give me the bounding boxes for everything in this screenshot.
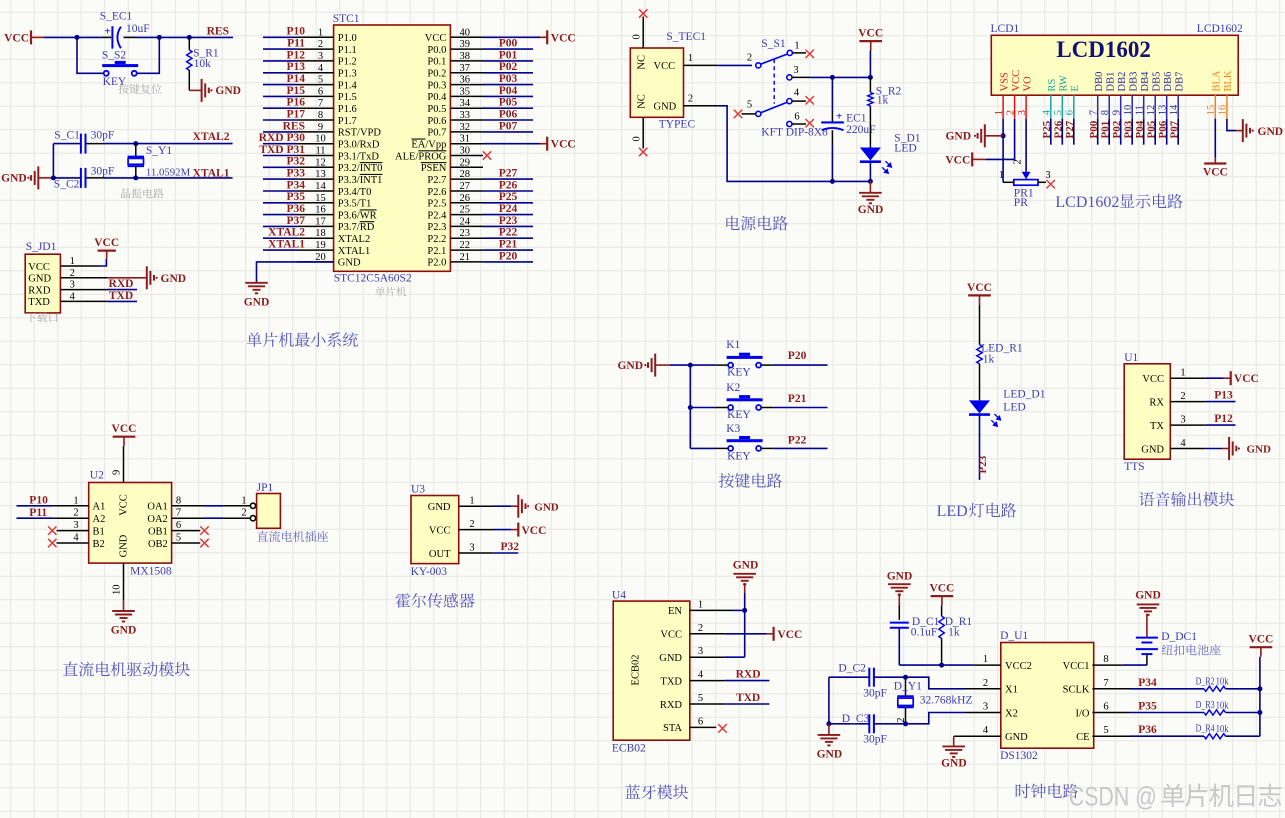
svg-text:VCC: VCC [112, 423, 137, 435]
svg-text:GND: GND [817, 749, 843, 761]
svg-text:25: 25 [460, 205, 471, 216]
power flag VCC (LCD backlight) [1203, 158, 1228, 179]
svg-text:VCC: VCC [929, 583, 954, 595]
power flag GND (D_C1) [887, 571, 913, 606]
svg-text:P36: P36 [1138, 724, 1157, 736]
svg-text:U2: U2 [90, 470, 104, 482]
connector S_TEC1 TYPEC body [630, 31, 706, 118]
svg-text:P27: P27 [499, 168, 518, 180]
pin 27 wire (right) [450, 181, 533, 192]
module title 时钟电路 [1016, 784, 1078, 799]
svg-text:D_R3: D_R3 [1196, 699, 1215, 711]
pin 14 wire (left) [263, 181, 334, 192]
svg-text:P02: P02 [1111, 120, 1123, 138]
svg-text:XTAL2: XTAL2 [193, 131, 230, 143]
svg-text:X2: X2 [1005, 708, 1018, 719]
crystal S_Y1 11.0592M [128, 144, 191, 179]
pin 25 wire (right) [450, 205, 533, 216]
svg-text:0: 0 [632, 136, 643, 141]
power flag VCC (pin 40) [540, 30, 576, 44]
pin 2 wire (left) [263, 39, 334, 50]
svg-text:9: 9 [112, 470, 123, 475]
PR1 pin3 no-connect [1038, 170, 1055, 188]
svg-text:GND: GND [858, 204, 884, 216]
svg-text:6: 6 [794, 111, 799, 122]
no-connect X pin 4 [792, 96, 814, 104]
svg-text:P00: P00 [1088, 120, 1100, 138]
svg-text:D_C3: D_C3 [842, 713, 870, 725]
module caption 按键复位 [118, 84, 161, 94]
svg-text:KEY: KEY [727, 367, 751, 379]
svg-text:DB3: DB3 [1128, 72, 1139, 92]
svg-text:TXD P31: TXD P31 [259, 144, 305, 156]
svg-text:ECB02: ECB02 [612, 743, 646, 755]
svg-text:4: 4 [73, 533, 79, 544]
svg-text:GND: GND [659, 653, 682, 664]
U2 pin2 wire P11 [17, 507, 89, 519]
svg-text:BLK: BLK [1223, 70, 1234, 91]
U4 pin4 TXD wire to RXD [690, 669, 770, 681]
svg-text:1: 1 [688, 53, 693, 64]
svg-text:33: 33 [460, 110, 471, 121]
PR1 pin1 wire to VSS net [999, 170, 1014, 182]
svg-text:STC1: STC1 [333, 13, 360, 25]
LCD net wires pins 4-14 [1051, 119, 1178, 145]
svg-text:P0.4: P0.4 [427, 92, 447, 103]
U3 pin2 wire to VCC [459, 523, 547, 537]
pin 34 wire (right) [450, 98, 533, 109]
svg-text:DB5: DB5 [1151, 72, 1162, 92]
svg-text:GND: GND [887, 571, 913, 583]
svg-text:17: 17 [315, 216, 326, 227]
svg-text:P36: P36 [286, 203, 305, 215]
svg-text:S_S1: S_S1 [761, 38, 786, 50]
pin 37 wire (right) [450, 63, 533, 74]
svg-text:STA: STA [663, 723, 682, 734]
svg-text:P34: P34 [286, 179, 305, 191]
svg-text:P21: P21 [499, 239, 518, 251]
ground GND (crystal caps) [817, 724, 843, 761]
svg-text:P2.7: P2.7 [427, 175, 446, 186]
svg-text:P3.7/RD: P3.7/RD [338, 222, 375, 233]
power flag VCC (reset circuit) [4, 30, 44, 44]
svg-text:3: 3 [73, 520, 78, 531]
svg-text:1k: 1k [877, 94, 889, 106]
module title 单片机最小系统 [247, 332, 358, 347]
svg-text:LED: LED [937, 503, 968, 520]
svg-text:S_JD1: S_JD1 [26, 241, 57, 253]
svg-text:RST/VPD: RST/VPD [338, 128, 382, 139]
svg-text:E: E [1070, 85, 1081, 91]
svg-text:2: 2 [318, 39, 323, 50]
svg-text:VCC2: VCC2 [1005, 661, 1032, 672]
svg-text:P11: P11 [287, 38, 305, 50]
power flag GND (battery) [1135, 590, 1161, 638]
key switch K3 [690, 423, 762, 462]
svg-text:I/O: I/O [1076, 708, 1090, 719]
pin 13 wire (left) [263, 169, 334, 180]
svg-text:EN: EN [668, 606, 682, 617]
svg-text:4: 4 [983, 725, 989, 736]
IC U2 MX1508 body [89, 470, 172, 578]
wire pin16 BLK to GND [1227, 119, 1236, 131]
pin 18 wire (left) [263, 228, 334, 239]
key switch K1 [690, 339, 762, 379]
svg-text:P06: P06 [1157, 120, 1169, 138]
svg-text:30pF: 30pF [91, 130, 115, 142]
svg-text:+: + [836, 111, 842, 123]
svg-text:3: 3 [983, 702, 988, 713]
svg-text:P2.1: P2.1 [427, 246, 446, 257]
svg-text:PR: PR [1014, 197, 1028, 209]
pin 23 wire (right) [450, 228, 533, 239]
svg-text:P0.6: P0.6 [427, 116, 446, 127]
svg-text:P07: P07 [1168, 120, 1180, 138]
svg-text:P17: P17 [286, 108, 305, 120]
connector TYPEC pin names [637, 55, 677, 113]
node junction VCC2 [939, 663, 944, 668]
svg-text:RX: RX [1149, 397, 1164, 408]
power flag VCC (clock pullups) [1248, 634, 1273, 737]
svg-text:P0.5: P0.5 [427, 104, 446, 115]
svg-text:1: 1 [794, 41, 799, 52]
U2 pin8 wire to JP1 pin1 [172, 495, 251, 506]
svg-text:U3: U3 [411, 484, 425, 496]
svg-text:+: + [104, 26, 110, 38]
svg-text:TTS: TTS [1124, 461, 1144, 473]
svg-text:TXD: TXD [660, 676, 682, 687]
node junction VSS/GND [1001, 133, 1006, 138]
svg-text:B1: B1 [93, 526, 105, 537]
svg-text:ALE/PROG: ALE/PROG [395, 151, 447, 162]
svg-text:D_R4: D_R4 [1196, 723, 1215, 735]
svg-text:8: 8 [318, 110, 323, 121]
U3 pin1 wire to GND [459, 495, 559, 518]
svg-text:28: 28 [460, 169, 471, 180]
wire XTAL1 net [53, 177, 78, 179]
node junction D_R2 [1257, 686, 1262, 691]
svg-text:6: 6 [698, 716, 703, 727]
svg-text:P10: P10 [29, 495, 48, 507]
U4 pin2 VCC wire [690, 627, 803, 641]
svg-text:K3: K3 [726, 423, 740, 435]
svg-text:30pF: 30pF [863, 688, 887, 700]
svg-text:40: 40 [460, 27, 471, 38]
svg-text:P01: P01 [1099, 121, 1111, 139]
svg-text:P37: P37 [286, 215, 305, 227]
svg-text:VCC: VCC [967, 282, 992, 294]
svg-text:5: 5 [747, 100, 752, 111]
connector S_JD1 header [25, 241, 75, 313]
svg-text:P0.0: P0.0 [427, 45, 446, 56]
svg-text:1: 1 [698, 599, 703, 610]
power flag GND (keys) [617, 354, 669, 377]
svg-text:KEY: KEY [103, 76, 127, 88]
svg-text:12: 12 [315, 157, 326, 168]
svg-text:15: 15 [315, 193, 326, 204]
svg-text:10uF: 10uF [126, 23, 150, 35]
svg-text:0.1uF: 0.1uF [911, 627, 938, 639]
IC LCD1 LCD1602 body [991, 23, 1244, 95]
svg-text:23: 23 [460, 228, 471, 239]
svg-text:GND: GND [733, 560, 759, 572]
svg-text:P2.5: P2.5 [427, 199, 446, 210]
svg-text:GND: GND [1247, 443, 1272, 455]
svg-text:10: 10 [315, 134, 326, 145]
pin 36 wire (right) [450, 75, 533, 86]
svg-text:P14: P14 [286, 73, 305, 85]
svg-text:P1.3: P1.3 [338, 69, 357, 80]
svg-text:4: 4 [318, 63, 324, 74]
svg-text:U4: U4 [612, 590, 626, 602]
wire pin3 VO down to potentiometer wiper [1025, 119, 1027, 172]
svg-text:13: 13 [315, 169, 326, 180]
module title 按键电路 [719, 473, 782, 488]
pin 40 wire (right) [450, 27, 540, 38]
svg-text:21: 21 [460, 252, 471, 263]
U2 pin1 wire P10 [17, 495, 89, 507]
power flag VCC (motor) [112, 423, 137, 482]
svg-text:2: 2 [1180, 391, 1185, 402]
pin 1 wire (left) [263, 27, 334, 38]
wire XTAL2 net [53, 143, 78, 145]
svg-text:P32: P32 [501, 541, 520, 553]
svg-text:D_R2: D_R2 [1196, 675, 1215, 687]
label 直流电机插座 [257, 531, 328, 542]
pin 16 wire (left) [263, 205, 334, 216]
svg-text:OA1: OA1 [147, 502, 167, 513]
node junction K1 [688, 363, 693, 368]
pin 22 wire (right) [450, 240, 533, 251]
svg-text:10k: 10k [194, 58, 212, 70]
svg-text:2: 2 [698, 623, 703, 634]
capacitor S_C1 30pF [54, 130, 114, 154]
IC U4 ECB02 body [612, 590, 704, 755]
wire cap right stub [124, 36, 137, 38]
ground GND (power circuit) [858, 181, 884, 216]
svg-text:7: 7 [176, 508, 181, 519]
node junction D_R3 [1257, 710, 1262, 715]
svg-text:30: 30 [460, 146, 471, 157]
svg-text:4: 4 [698, 670, 704, 681]
U2 pin6 no-connect [172, 520, 209, 535]
svg-text:P2.0: P2.0 [427, 258, 446, 269]
svg-text:P25: P25 [1041, 120, 1053, 138]
svg-text:RXD: RXD [109, 278, 134, 290]
no-connect X pin 6 [792, 119, 814, 127]
svg-text:P2.4: P2.4 [427, 210, 447, 221]
svg-text:P03: P03 [499, 73, 518, 85]
svg-text:VCC: VCC [1142, 374, 1164, 385]
label 纽扣电池座 [1162, 644, 1221, 655]
svg-text:GND: GND [945, 131, 971, 143]
svg-text:RW: RW [1059, 75, 1070, 91]
U4 pin1 EN wire [690, 609, 745, 611]
svg-text:GND: GND [1135, 590, 1161, 602]
svg-text:GND: GND [244, 297, 270, 309]
svg-text:3: 3 [1045, 170, 1050, 181]
svg-text:KFT DIP-8X8: KFT DIP-8X8 [761, 127, 828, 139]
svg-text:PSEN: PSEN [421, 163, 447, 174]
svg-text:P3.5/T1: P3.5/T1 [338, 199, 372, 210]
svg-text:1: 1 [241, 495, 246, 506]
svg-text:TXD: TXD [109, 290, 133, 302]
wire K3 to P22 [761, 447, 827, 449]
svg-text:P27: P27 [1064, 120, 1076, 138]
svg-text:P34: P34 [1138, 677, 1157, 689]
IC U3 KY-003 body [411, 484, 475, 579]
svg-text:GND: GND [941, 758, 967, 770]
svg-text:GND: GND [28, 274, 51, 285]
svg-text:P16: P16 [286, 97, 305, 109]
U1 pin4 wire to GND [1170, 437, 1271, 460]
svg-text:16: 16 [315, 205, 326, 216]
pin 0 top no-connect [632, 9, 648, 48]
power flag VCC (LED circuit) [967, 282, 992, 305]
U4 pin5 RXD wire to TXD [690, 692, 770, 704]
svg-text:P24: P24 [499, 203, 518, 215]
svg-text:S_C2: S_C2 [54, 179, 80, 191]
module title 电源电路 [726, 216, 788, 231]
svg-text:RXD P30: RXD P30 [259, 132, 306, 144]
svg-text:P07: P07 [499, 120, 518, 132]
pin 1 wire to VCC [60, 259, 106, 266]
node junction X1/crystal top [903, 675, 908, 680]
svg-text:RXD: RXD [28, 285, 51, 296]
svg-text:DB6: DB6 [1163, 72, 1174, 92]
svg-text:P20: P20 [788, 350, 807, 362]
svg-text:TX: TX [1150, 421, 1164, 432]
svg-text:RES: RES [283, 120, 305, 132]
svg-text:LCD1602: LCD1602 [1197, 23, 1243, 35]
svg-text:SCLK: SCLK [1063, 685, 1090, 696]
svg-text:TXD: TXD [736, 692, 760, 704]
IC U-STC1 STC12C5A60S2 body [333, 13, 451, 285]
svg-text:1k: 1k [948, 627, 960, 639]
D_U1 pin1 wire [942, 664, 1001, 666]
svg-text:5: 5 [176, 533, 181, 544]
svg-text:P20: P20 [499, 250, 518, 262]
svg-text:1: 1 [1180, 368, 1185, 379]
pin 2 GND wire to rail [684, 94, 871, 182]
svg-text:VO: VO [1022, 76, 1033, 92]
svg-text:S_EC1: S_EC1 [100, 11, 133, 23]
svg-text:P10: P10 [286, 26, 305, 38]
svg-text:P00: P00 [499, 38, 518, 50]
svg-text:XTAL1: XTAL1 [268, 239, 305, 251]
node junction X2/crystal bottom [903, 721, 908, 726]
pin 5 wire (left) [263, 75, 334, 86]
svg-text:P21: P21 [788, 393, 807, 405]
svg-text:P3.2/INT0: P3.2/INT0 [338, 163, 383, 174]
svg-text:NC: NC [637, 94, 648, 109]
svg-text:KY-003: KY-003 [411, 566, 448, 578]
svg-text:LED_D1: LED_D1 [1003, 389, 1045, 401]
svg-text:DB4: DB4 [1140, 71, 1151, 92]
switch S_S1 DIP [747, 38, 800, 127]
capacitor D_C1 0.1uF [890, 606, 940, 666]
svg-text:P1.7: P1.7 [338, 116, 357, 127]
pin 28 wire (right) [450, 169, 533, 180]
resistor D_R2 10k [1130, 675, 1260, 691]
svg-text:KEY: KEY [727, 409, 751, 421]
wire LED to P23 [979, 415, 981, 480]
LCD pin stubs [1003, 95, 1227, 119]
svg-text:7: 7 [1103, 678, 1108, 689]
svg-text:P15: P15 [286, 85, 305, 97]
pin 39 wire (right) [450, 39, 533, 50]
IC D_U1 DS1302 body [983, 630, 1109, 762]
svg-text:JP1: JP1 [257, 482, 274, 494]
resistor D_R4 10k [1130, 723, 1260, 739]
svg-text:DS1302: DS1302 [1000, 750, 1038, 762]
svg-text:VCC: VCC [1234, 373, 1259, 385]
svg-text:GND: GND [428, 502, 451, 513]
svg-text:XTAL1: XTAL1 [193, 168, 230, 180]
svg-text:8: 8 [1103, 654, 1108, 665]
U4 pin3 GND wire [690, 656, 745, 658]
ground GND (reset) [189, 79, 241, 102]
svg-text:XTAL2: XTAL2 [338, 234, 370, 245]
svg-text:1: 1 [73, 495, 78, 506]
pin 21 wire (right) [450, 252, 533, 263]
resistor LED_R1 1k [977, 343, 1023, 366]
svg-text:P13: P13 [286, 61, 305, 73]
svg-text:P25: P25 [499, 191, 518, 203]
pin 3 wire to VCC rail [792, 76, 870, 78]
svg-text:ECB02: ECB02 [631, 655, 642, 686]
svg-text:VCC: VCC [119, 494, 130, 516]
wire right of key up to RES net [137, 37, 160, 73]
svg-text:24: 24 [460, 216, 471, 227]
svg-text:VCC: VCC [660, 630, 682, 641]
svg-text:P12: P12 [1214, 413, 1233, 425]
power flag VCC (download port) [94, 237, 119, 259]
svg-text:2: 2 [469, 519, 474, 530]
svg-text:VCC1: VCC1 [1063, 661, 1090, 672]
node junction EC1 bottom [830, 179, 835, 184]
wire left branch down to key [77, 37, 104, 73]
no-connect X pin 1 of S_S1 [792, 50, 814, 58]
svg-text:5: 5 [318, 75, 323, 86]
svg-text:14: 14 [315, 181, 326, 192]
svg-text:8: 8 [176, 495, 181, 506]
svg-text:7: 7 [318, 98, 323, 109]
svg-text:S_TEC1: S_TEC1 [666, 31, 706, 43]
svg-text:K1: K1 [726, 339, 740, 351]
D_U1 pin5 wire P36 [1092, 724, 1157, 736]
pin 24 wire (right) [450, 216, 533, 227]
IC U1 TTS body [1124, 352, 1186, 473]
svg-text:6: 6 [318, 86, 323, 97]
svg-text:TYPEC: TYPEC [659, 119, 696, 131]
power flag VCC (power circuit) [858, 28, 883, 78]
pin 0 bottom no-connect [632, 117, 648, 156]
svg-text:XTAL1: XTAL1 [338, 246, 370, 257]
node junction XTAL2/crystal [133, 141, 138, 146]
svg-text:18: 18 [315, 228, 326, 239]
svg-text:39: 39 [460, 39, 471, 50]
D_U1 pin3 X2 wire [906, 713, 1001, 724]
svg-text:GND: GND [534, 502, 559, 514]
svg-text:11.0592M: 11.0592M [146, 166, 191, 178]
node junction right [157, 35, 162, 40]
svg-text:10: 10 [112, 585, 123, 596]
svg-text:P0.1: P0.1 [427, 57, 446, 68]
svg-text:P3.3/INT1: P3.3/INT1 [338, 175, 383, 186]
svg-text:P05: P05 [1145, 120, 1157, 138]
module title 霍尔传感器 [396, 593, 475, 608]
